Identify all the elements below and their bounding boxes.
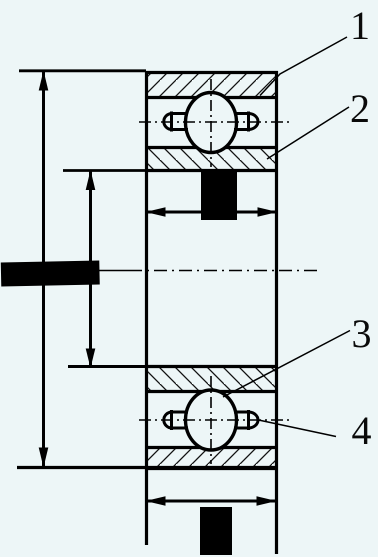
svg-text:1: 1: [350, 3, 370, 48]
bore dimension left arrow (upper): [146, 207, 166, 216]
svg-text:3: 3: [352, 311, 372, 356]
main axis centerline solid segment: [97, 270, 129, 272]
outer ring raceway edge (top bearing): [145, 96, 278, 99]
inner dimension arrow up: [86, 170, 96, 190]
left bore line: [145, 71, 148, 545]
outer ring bottom edge (bottom bearing): [145, 467, 278, 470]
outer ring top edge (top bearing): [145, 71, 278, 74]
ball vertical centerline (bottom bearing): [210, 376, 212, 464]
inner dimension arrow down: [86, 349, 96, 369]
bore dimension right arrow (upper): [258, 207, 278, 216]
outer dimension line: [42, 71, 45, 467]
leader line 4: [259, 420, 337, 437]
inner ring bottom edge (top bearing): [145, 169, 278, 172]
leader line 3: [223, 331, 350, 398]
ball (bottom bearing): [186, 390, 237, 450]
inner ring raceway edge (bottom bearing): [145, 390, 278, 393]
inner ring hatch (bottom bearing): [147, 368, 276, 390]
cage rivet right (top bearing): [234, 112, 258, 132]
inner extension line upper: [63, 169, 146, 172]
inner ring hatch (top bearing): [147, 149, 276, 170]
spacer block (lower): [200, 507, 232, 555]
svg-text:2: 2: [350, 86, 370, 131]
outer dimension arrow up: [39, 71, 49, 91]
ball vertical centerline (top bearing): [210, 79, 212, 167]
spacer block (upper): [201, 171, 237, 220]
svg-text:4: 4: [352, 408, 372, 453]
top extension line: [19, 69, 146, 72]
leader line 1: [260, 37, 347, 96]
outer dimension arrow down: [39, 448, 49, 468]
inner dimension line: [89, 171, 92, 367]
bottom extension line: [17, 466, 278, 469]
right bore line: [275, 71, 278, 554]
cage rivet left (bottom bearing): [164, 410, 188, 430]
outer ring hatch (top bearing): [147, 72, 276, 98]
outer ring hatch (bottom bearing): [147, 449, 276, 467]
ball horizontal centerline (bottom bearing): [139, 419, 293, 421]
inner ring raceway edge (top bearing): [145, 146, 278, 149]
leader line 2: [267, 107, 349, 159]
inner ring top edge (bottom bearing): [145, 365, 278, 368]
bore dimension line (upper): [146, 211, 277, 214]
cage rivet left (top bearing): [164, 112, 188, 132]
cage rivet right (bottom bearing): [234, 410, 258, 430]
ball horizontal centerline (top bearing): [139, 121, 289, 123]
bore dimension line (lower): [146, 500, 276, 503]
bore dimension right arrow (lower): [257, 496, 277, 505]
shaft break bar: [1, 260, 100, 286]
outer ring raceway edge (bottom bearing): [145, 446, 278, 449]
bore dimension left arrow (lower): [146, 496, 166, 505]
main axis centerline dash-dot: [129, 270, 320, 272]
inner extension line lower: [68, 365, 146, 368]
ball (top bearing): [186, 93, 237, 153]
